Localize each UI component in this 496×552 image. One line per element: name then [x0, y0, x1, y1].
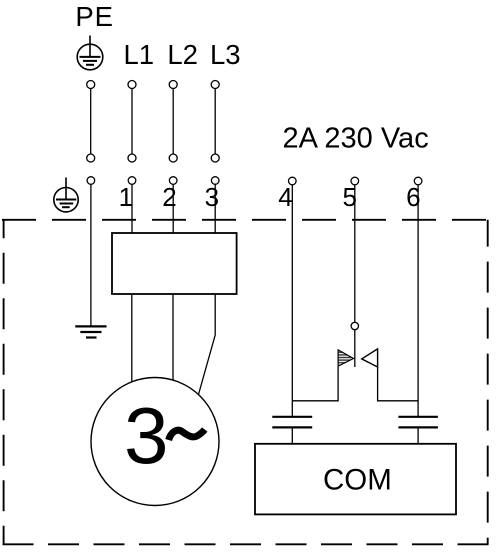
svg-text:4: 4 — [278, 182, 292, 212]
svg-text:6: 6 — [406, 182, 420, 212]
svg-text:3: 3 — [205, 182, 219, 212]
svg-text:L1: L1 — [124, 39, 155, 70]
svg-text:PE: PE — [75, 1, 114, 32]
svg-text:L2: L2 — [167, 39, 198, 70]
svg-text:1: 1 — [119, 182, 133, 212]
svg-text:2A 230 Vac: 2A 230 Vac — [283, 123, 429, 155]
svg-text:COM: COM — [323, 464, 392, 497]
svg-text:2: 2 — [162, 182, 176, 212]
svg-text:5: 5 — [342, 182, 356, 212]
svg-text:L3: L3 — [210, 39, 241, 70]
svg-text:3: 3 — [124, 391, 169, 480]
